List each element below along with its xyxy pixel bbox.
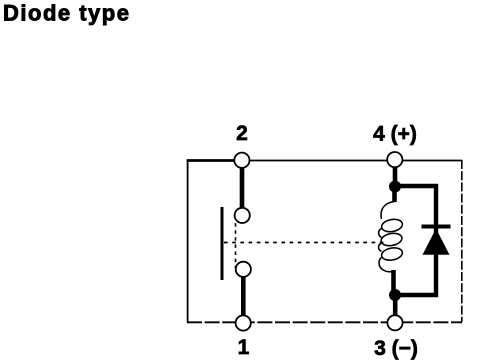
relay outline bottom edge: [187, 321, 462, 323]
wire: diode bottom to bottom junction: [394, 293, 438, 297]
node: bottom junction dot: [389, 289, 401, 301]
mechanical link dotted line to coil: [224, 242, 384, 244]
terminal 4: [387, 152, 402, 167]
node: top junction dot: [389, 181, 401, 193]
actuator dashed line (vertical): [235, 216, 237, 268]
relay coil winding: [379, 202, 404, 272]
wire: diode branch lower vertical: [434, 254, 438, 297]
relay coil upper lead: [392, 186, 397, 202]
wire: top junction to diode branch: [395, 184, 438, 188]
relay outline left edge: [187, 160, 189, 323]
contact: upper movable: [235, 208, 250, 223]
switch fixed contact bar: [221, 207, 224, 280]
svg-text:1: 1: [238, 336, 250, 359]
diode anode triangle: [423, 229, 450, 255]
relay outline top edge (left thick segment): [187, 159, 234, 162]
relay outline box: [187, 160, 462, 323]
relay coil lower lead: [391, 270, 396, 296]
wire: terminal 2 to upper contact: [240, 165, 245, 209]
svg-text:4 (+): 4 (+): [373, 123, 417, 146]
terminal 2: [234, 153, 249, 168]
relay outline right edge: [461, 160, 463, 322]
wire: diode branch upper vertical: [434, 184, 438, 234]
terminal 3: [387, 315, 402, 330]
wire: terminal 4 to top junction: [393, 165, 398, 190]
svg-text:3 (−): 3 (−): [374, 337, 418, 360]
contact: lower movable: [236, 262, 251, 277]
wire: bottom junction to terminal 3: [393, 293, 398, 317]
terminal 1: [236, 315, 251, 330]
diode cathode bar: [422, 225, 451, 229]
svg-text:2: 2: [236, 122, 248, 145]
relay outline top edge: [234, 160, 462, 162]
wire: lower contact to terminal 1: [241, 276, 246, 317]
svg-text:Diode type: Diode type: [3, 1, 130, 26]
